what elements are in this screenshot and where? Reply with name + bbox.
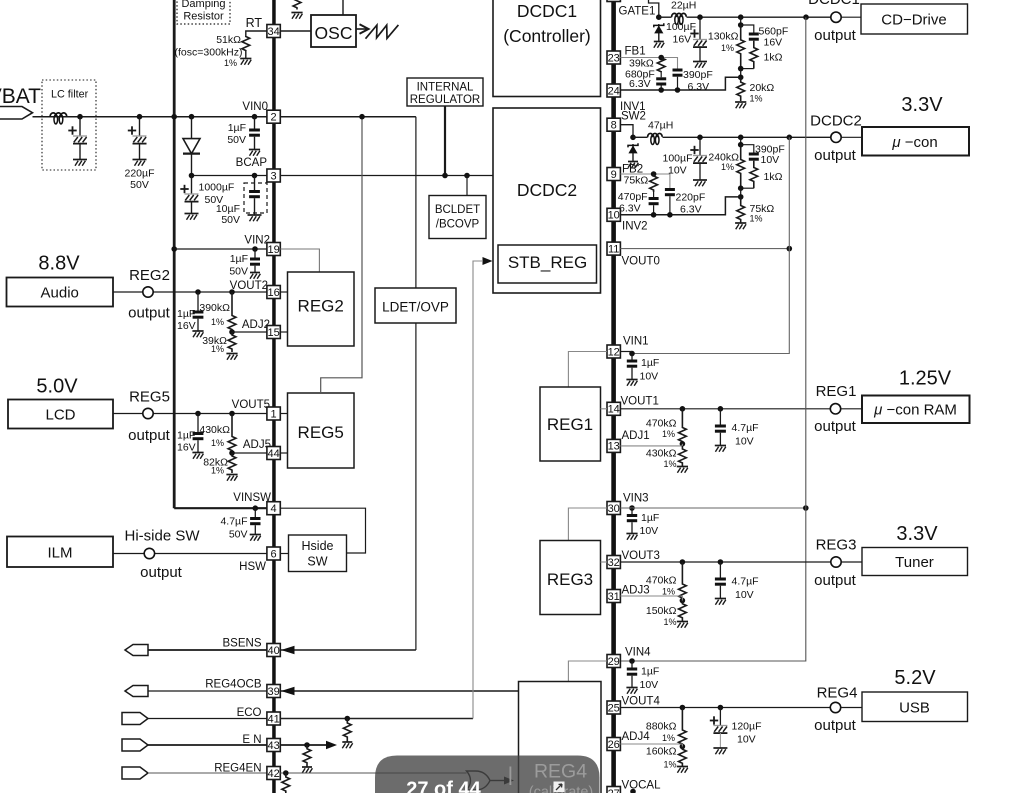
node (BCAP-bcldet) — [464, 173, 470, 179]
svg-text:25: 25 — [608, 702, 620, 714]
svg-text:120µF: 120µF — [732, 721, 762, 733]
svg-text:16V: 16V — [177, 320, 196, 332]
label INV1 — [620, 101, 646, 113]
node VIN4 — [629, 658, 635, 664]
label REG5 — [129, 389, 170, 406]
label 1% — [211, 466, 224, 476]
node ADJ1 — [680, 441, 686, 447]
svg-text:1%: 1% — [663, 459, 676, 469]
pin 41 (ECO) — [267, 712, 280, 725]
block DCDC2 — [493, 108, 601, 293]
node (130k top) — [738, 14, 744, 20]
node (20k top) — [738, 75, 744, 81]
node (390p-INV1) — [675, 87, 681, 93]
block Tuner load — [862, 548, 968, 576]
resistor 240kΩ — [737, 145, 745, 189]
terminal REG3 output — [831, 557, 841, 567]
block LCD load — [8, 400, 113, 429]
wire REG4OCB right — [280, 690, 518, 692]
label REG4 (calibrate) through overlay — [529, 761, 593, 793]
arrow into STB_REG — [483, 257, 493, 265]
wire VIN3 — [620, 507, 805, 509]
capacitor 220pF/6.3V (FB2) — [665, 188, 675, 215]
pin 32 (VOUT3) — [607, 556, 620, 569]
IC left edge — [272, 0, 276, 793]
wire bcldet — [466, 176, 468, 196]
svg-text:100µF: 100µF — [663, 153, 693, 165]
wire pin12 stub — [620, 351, 632, 353]
svg-text:470kΩ: 470kΩ — [646, 575, 677, 587]
label 6.3V — [680, 204, 702, 216]
svg-text:34: 34 — [267, 26, 279, 38]
svg-text:REG5: REG5 — [129, 389, 170, 406]
node SW2-net — [630, 135, 636, 141]
label 1% — [721, 162, 734, 172]
svg-text:Tuner: Tuner — [895, 554, 934, 571]
node (880k) — [680, 705, 686, 711]
resistor 1kΩ (DCDC2) — [741, 161, 758, 189]
svg-text:REG1: REG1 — [816, 383, 857, 400]
pin 24 (INV1) — [607, 84, 620, 97]
label 1µF — [641, 357, 659, 369]
label REG2 — [129, 267, 170, 284]
resistor 39kΩ (FB1) — [657, 58, 665, 73]
label 1% — [224, 58, 237, 68]
svg-text:3.3V: 3.3V — [901, 94, 943, 116]
label 1% — [211, 344, 224, 354]
arrow into pin 40 — [281, 646, 295, 655]
node (39k-INV1) — [658, 87, 664, 93]
wire REG5 output — [113, 413, 267, 415]
capacitor 680pF/6.3V — [656, 72, 666, 90]
svg-text:27 of 44: 27 of 44 — [406, 779, 481, 793]
svg-text:1%: 1% — [663, 617, 676, 627]
resistor (ECO pulldown) — [343, 719, 351, 742]
pin 23 (FB1) — [607, 51, 620, 64]
node (220µF) — [137, 114, 143, 120]
resistor 470kΩ (REG3) — [679, 562, 687, 601]
svg-text:6.3V: 6.3V — [680, 204, 702, 216]
svg-text:BSENS: BSENS — [223, 638, 262, 650]
svg-text:16V: 16V — [764, 37, 783, 49]
label 1000µF — [199, 182, 235, 194]
svg-text:24: 24 — [608, 85, 620, 97]
svg-text:CD−Drive: CD−Drive — [881, 12, 946, 29]
svg-text:6.3V: 6.3V — [688, 81, 710, 93]
label 39kΩ — [629, 58, 654, 70]
wire DCDC1-VIN3-VIN4 vertical — [620, 17, 805, 661]
node (75k branch) — [651, 171, 657, 177]
label 50V — [130, 179, 149, 191]
svg-text:GATE1: GATE1 — [619, 6, 656, 18]
svg-text:(Controller): (Controller) — [503, 26, 591, 46]
svg-text:/BCOVP: /BCOVP — [436, 219, 480, 231]
wire pin4-HsideSW — [280, 508, 365, 553]
block Hside SW — [289, 535, 347, 572]
svg-text:8.8V: 8.8V — [38, 253, 80, 275]
wire REG4OCB left — [148, 690, 267, 692]
label VBAT — [0, 85, 41, 108]
label 6.3V — [619, 203, 641, 215]
svg-text:10V: 10V — [735, 436, 754, 448]
svg-text:390pF: 390pF — [683, 69, 713, 81]
wire FB2 — [620, 174, 670, 188]
wire VIN2 — [174, 248, 267, 250]
wire pin1-REG5 — [280, 413, 287, 415]
svg-text:220µF: 220µF — [125, 168, 155, 180]
node (BCAP-intreg) — [442, 173, 448, 179]
node (diode) — [189, 114, 195, 120]
label output — [814, 27, 857, 44]
svg-text:12: 12 — [608, 346, 620, 358]
wire VIN1-REG1 feed — [568, 352, 607, 388]
label 16V — [673, 34, 692, 46]
label 470kΩ — [646, 575, 677, 587]
svg-text:470kΩ: 470kΩ — [646, 418, 677, 430]
capacitor 1µF/16V (REG2) — [192, 292, 203, 337]
capacitor 220µF/50V — [128, 117, 147, 160]
label INV2 — [622, 221, 648, 233]
label 10V — [761, 154, 780, 166]
label 1% — [662, 733, 675, 743]
wire INV2 tap — [740, 188, 742, 197]
label HSW — [239, 561, 266, 573]
resistor 82kΩ — [228, 453, 236, 473]
node (75k top) — [738, 194, 744, 200]
node (75k-INV2) — [651, 212, 657, 218]
label 1% — [211, 438, 224, 448]
terminal REG4 output — [830, 702, 840, 712]
label 130kΩ — [708, 31, 739, 43]
node (1000µF) — [189, 173, 195, 179]
svg-text:μ −con: μ −con — [891, 134, 937, 151]
block REG4 (calibrate) — [519, 682, 602, 793]
svg-text:30: 30 — [608, 503, 620, 515]
wire pin14-REG1 — [601, 408, 608, 410]
label 880kΩ — [646, 721, 677, 733]
resistor 39kΩ — [228, 332, 236, 352]
node VINSW cap — [253, 505, 259, 511]
label 10V — [640, 371, 659, 383]
capacitor 4.7µF/50V — [250, 508, 261, 541]
capacitor 100µF/10V (DCDC2) — [690, 137, 707, 186]
label VOUT5 — [232, 399, 270, 411]
node (INV2 tap) — [738, 185, 744, 191]
label 1% — [721, 43, 734, 53]
svg-text:1µF: 1µF — [228, 122, 246, 134]
wire VINSW — [174, 507, 267, 509]
capacitor LC filter (polarized) — [68, 117, 87, 160]
wire VOUT1 — [620, 408, 830, 410]
node REG4EN pulldown — [283, 770, 289, 776]
capacitor 1µF/10V (VIN3) — [626, 508, 637, 540]
svg-text:31: 31 — [608, 591, 620, 603]
wire VIN3-REG3 feed — [568, 508, 607, 541]
capacitor 10µF/50V (optional, dashed) — [244, 176, 267, 222]
label BCAP — [236, 157, 268, 169]
arrow into pin 39 — [281, 687, 295, 696]
label 1µF — [177, 308, 195, 320]
wire VBAT — [33, 116, 416, 118]
node (220p-INV2) — [667, 212, 673, 218]
svg-text:1%: 1% — [721, 162, 734, 172]
block REG5 box — [288, 393, 355, 468]
svg-text:REG4: REG4 — [534, 761, 587, 783]
pin 14 (VOUT1) — [607, 402, 620, 415]
wire pin16-REG2 — [280, 291, 287, 293]
wire REG2 output — [113, 291, 274, 293]
svg-text:output: output — [814, 147, 857, 164]
block ILM load — [7, 537, 113, 568]
label output — [814, 717, 857, 734]
svg-text:1000µF: 1000µF — [199, 182, 235, 194]
svg-text:430kΩ: 430kΩ — [646, 448, 677, 460]
pin 2 (VIN0) — [267, 110, 280, 123]
pin 19 (VIN2) — [267, 243, 280, 256]
node (390p branch DCDC2) — [738, 142, 744, 148]
svg-text:VOUT3: VOUT3 — [622, 550, 660, 562]
block REG1 — [540, 387, 601, 461]
label 10V — [735, 436, 754, 448]
label 75kΩ — [750, 203, 775, 215]
label 6.3V — [629, 78, 651, 90]
connector EN flag — [122, 739, 148, 751]
svg-text:13: 13 — [608, 441, 620, 453]
node (REG5 1µF) — [195, 411, 201, 417]
label 220pF — [676, 192, 706, 204]
overlay divider — [510, 767, 512, 786]
ground — [677, 767, 688, 773]
label 27 of 44 — [406, 779, 481, 793]
capacitor 390pF/6.3V (FB1) — [673, 69, 683, 91]
label 390pF — [755, 144, 785, 156]
wire BSENS right — [280, 649, 416, 651]
svg-text:REG1: REG1 — [547, 415, 593, 434]
inductor 47µH — [648, 133, 663, 144]
node EN pulldown — [304, 742, 310, 748]
node VIN1 — [629, 351, 635, 357]
svg-text:220pF: 220pF — [676, 192, 706, 204]
wire VOUT0 — [620, 248, 789, 250]
node VIN3-vert — [803, 505, 809, 511]
label 100µF — [666, 21, 696, 33]
pin 6 (HSW) — [267, 547, 280, 560]
svg-text:SW: SW — [307, 555, 327, 569]
svg-text:3: 3 — [271, 170, 277, 182]
wire HSW output — [113, 553, 267, 555]
node (120µF) — [718, 705, 724, 711]
block LDET/OVP — [375, 288, 456, 323]
label 75kΩ — [624, 175, 649, 187]
svg-text:output: output — [814, 27, 857, 44]
capacitor 1µF/50V (VIN2) — [250, 249, 260, 279]
svg-text:Audio: Audio — [41, 285, 79, 302]
resistor 430kΩ — [228, 414, 236, 454]
label VINSW — [233, 492, 271, 504]
svg-text:REG3: REG3 — [816, 537, 857, 554]
label 1% — [662, 429, 675, 439]
svg-text:1%: 1% — [211, 466, 224, 476]
pin 1 (VOUT5) — [267, 407, 280, 420]
resistor 390kΩ — [228, 292, 236, 332]
block REG2 — [288, 272, 355, 346]
resistor 75kΩ (FB2) — [650, 174, 658, 192]
svg-text:VOUT1: VOUT1 — [621, 396, 659, 408]
svg-text:1%: 1% — [211, 438, 224, 448]
svg-text:VIN0: VIN0 — [242, 101, 268, 113]
label 50V — [229, 266, 248, 278]
svg-text:15: 15 — [267, 327, 279, 339]
connector REG4EN flag — [122, 767, 148, 779]
label 160kΩ — [646, 746, 677, 758]
svg-text:Hside: Hside — [302, 539, 334, 553]
label ADJ1 — [622, 430, 650, 442]
wire to USB — [841, 707, 862, 709]
terminal DCDC1 output — [831, 12, 841, 22]
wire DCDC2-VIN1 vertical — [632, 137, 789, 353]
label FB1 — [625, 46, 646, 58]
resistor 430kΩ (REG1) — [679, 446, 687, 466]
label 1% — [663, 459, 676, 469]
wire VIN0-LDET-BSENS — [415, 117, 417, 650]
pin 3 (BCAP) — [267, 169, 280, 182]
label 3.3V (DCDC2) — [901, 94, 943, 116]
svg-text:VIN4: VIN4 — [625, 647, 651, 659]
svg-text:REG5: REG5 — [298, 423, 344, 442]
svg-text:VIN1: VIN1 — [623, 336, 649, 348]
label 8.8V — [38, 253, 80, 275]
block Audio load — [7, 278, 114, 307]
label 10V — [737, 734, 756, 746]
node (VIN2 cap) — [252, 246, 258, 252]
label VIN0 — [242, 101, 268, 113]
label output — [814, 147, 857, 164]
label output — [140, 564, 183, 581]
block REG3 — [540, 541, 601, 615]
svg-text:REG2: REG2 — [129, 267, 170, 284]
label 100µF — [663, 153, 693, 165]
svg-text:50V: 50V — [229, 529, 248, 541]
label 430kΩ — [646, 448, 677, 460]
resistor 160kΩ — [679, 747, 687, 767]
label REG4EN — [214, 763, 261, 775]
svg-text:1kΩ: 1kΩ — [764, 171, 783, 183]
connector VBAT input flag — [0, 107, 33, 120]
svg-text:SW2: SW2 — [621, 111, 646, 123]
svg-text:1.25V: 1.25V — [899, 368, 952, 390]
svg-text:27: 27 — [608, 788, 620, 793]
wire VBAT rail (vertical) — [173, 0, 176, 508]
svg-text:VBAT: VBAT — [0, 85, 41, 108]
pin 39 (REG4OCB) — [267, 685, 280, 698]
wire pin6-HsideSW — [280, 553, 288, 555]
node (240k top) — [738, 135, 744, 141]
wire REG4EN right — [280, 772, 466, 774]
label 16V — [764, 37, 783, 49]
wire ADJ4 — [620, 744, 682, 747]
wire DCDC2 out — [633, 136, 831, 138]
pin 9 (FB2) — [607, 168, 620, 181]
node DCDC1-vert — [803, 14, 809, 20]
svg-text:26: 26 — [608, 739, 620, 751]
wire INV1 tap — [740, 69, 742, 78]
wire SW2 — [620, 125, 633, 138]
label 10V — [640, 679, 659, 691]
svg-text:OSC: OSC — [315, 23, 353, 43]
wire VIN4-REG4 feed — [568, 661, 607, 682]
label VOUT0 — [622, 256, 660, 268]
resistor 75kΩ (lower) — [737, 197, 745, 223]
node VIN3 — [629, 505, 635, 511]
label BSENS — [223, 638, 262, 650]
ground — [654, 42, 664, 48]
label 1µF — [177, 430, 195, 442]
svg-text:1%: 1% — [662, 733, 675, 743]
svg-text:ADJ2: ADJ2 — [242, 319, 270, 331]
svg-text:44: 44 — [267, 448, 279, 460]
svg-text:output: output — [140, 564, 183, 581]
svg-text:10V: 10V — [737, 734, 756, 746]
pin 43 (EN) — [267, 739, 280, 752]
node VOUT0-vert — [787, 246, 793, 252]
svg-text:1%: 1% — [211, 317, 224, 327]
wire FB1 — [620, 58, 677, 69]
node ADJ3 — [680, 598, 686, 604]
label SW2 — [621, 111, 646, 123]
block USB load — [862, 692, 968, 722]
label DCDC1 (output) — [808, 0, 860, 8]
svg-text:output: output — [814, 418, 857, 435]
label 50V — [205, 194, 224, 206]
wire to µ-con — [841, 136, 862, 138]
svg-text:STB_REG: STB_REG — [508, 253, 587, 272]
svg-text:10V: 10V — [640, 371, 659, 383]
annotation box LC filter — [42, 80, 96, 170]
svg-text:Resistor: Resistor — [183, 11, 224, 23]
ground — [133, 160, 147, 166]
label 51kΩ — [216, 34, 241, 46]
terminal HSW output — [144, 548, 154, 558]
label GATE1 — [619, 6, 656, 18]
resistor 1kΩ (DCDC1) — [741, 41, 758, 69]
svg-text:41: 41 — [267, 713, 279, 725]
svg-text:output: output — [128, 427, 171, 444]
svg-text:560pF: 560pF — [759, 25, 789, 37]
svg-text:μ −con RAM: μ −con RAM — [873, 402, 957, 419]
connector ECO flag — [122, 713, 148, 725]
node (470k REG1) — [680, 406, 686, 412]
label 47µH — [648, 120, 673, 132]
ground — [226, 354, 237, 360]
node (LC filter cap) — [77, 114, 83, 120]
capacitor 1µF/10V (VIN1) — [626, 354, 637, 386]
svg-text:1: 1 — [271, 408, 277, 420]
node (39k branch) — [658, 55, 664, 61]
svg-text:1µF: 1µF — [641, 357, 659, 369]
pin 15 (ADJ2) — [267, 326, 280, 339]
label ADJ2 — [242, 319, 270, 331]
svg-text:20kΩ: 20kΩ — [750, 82, 775, 94]
node ECO pulldown — [345, 716, 351, 722]
pin 26 (ADJ4) — [607, 738, 620, 751]
label output — [128, 427, 171, 444]
label RT — [246, 16, 263, 30]
ground — [226, 475, 237, 481]
label 1% — [211, 317, 224, 327]
wire REG4EN left — [148, 772, 267, 774]
svg-text:16V: 16V — [177, 442, 196, 454]
sawtooth waveform symbol — [356, 24, 398, 38]
